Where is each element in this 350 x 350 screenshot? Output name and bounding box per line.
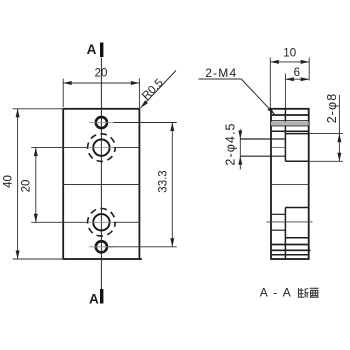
caption A - A section [260,285,292,299]
svg-text:6: 6 [294,67,300,79]
counterbored hole bottom: phi4.5 [93,214,109,230]
svg-text:33.3: 33.3 [158,170,170,192]
horizontal mid centerline of plate [62,184,139,186]
counterbore top (section) [285,134,308,162]
label 2-M4 with leader [198,66,274,115]
dimension 20 (top width) [63,68,139,109]
svg-text:R0.5: R0.5 [140,77,166,103]
step line (6mm face) upper [284,109,286,162]
phi4.5 hole top (section) + extension to dim [240,139,285,156]
step line lower [284,208,286,260]
section mark tick bottom [100,289,103,304]
centerline to right edge, hole row 3 [114,221,140,223]
counterbored hole top: phi4.5 [93,139,109,155]
tapped hole M4 bottom [96,241,107,252]
dimension 20 (hole pitch, left) [21,148,89,223]
svg-text:20: 20 [95,68,108,80]
tapped hole M4 top [96,117,107,128]
svg-text:A - A: A - A [260,285,292,299]
svg-text:40: 40 [2,175,14,188]
dimension 2-phi4.5 [224,122,243,169]
svg-text:2-φ4.5: 2-φ4.5 [224,122,238,165]
counterbore bottom (section) [285,208,308,238]
svg-text:2-M4: 2-M4 [205,66,237,80]
phi4.5 hole bottom (section) [267,214,313,230]
dimension 40 (height, far left) [2,109,62,259]
svg-text:A: A [89,291,99,306]
svg-text:2-φ8: 2-φ8 [325,93,339,124]
plate outline [63,109,142,259]
dimension 10 (total thickness) [270,48,309,109]
section body outline [271,109,309,259]
kanji 断 (hand drawn) [299,288,309,298]
M4 thread band top [271,115,309,131]
counterbore phi8 bottom (hidden, dashed) [88,209,116,237]
counterbore phi8 top (hidden, dashed) [88,134,116,162]
dimension 6 [285,67,309,109]
centerline to right edge, hole row 2 [114,147,140,149]
hole centerline stubs (gray) [89,122,114,124]
svg-text:10: 10 [283,48,296,60]
dimension 33.3 (tapped hole pitch) [109,123,177,247]
section mark tick top [100,43,103,58]
leader R0.5 [140,71,176,108]
vertical section centerline A-A [100,58,102,290]
svg-text:A: A [87,42,97,57]
M4 thread band bottom [271,245,311,255]
svg-text:20: 20 [21,180,33,193]
dimension 2-phi8 [309,93,343,162]
section mid centerline [271,183,309,185]
kanji 面 (hand drawn) [310,288,319,297]
